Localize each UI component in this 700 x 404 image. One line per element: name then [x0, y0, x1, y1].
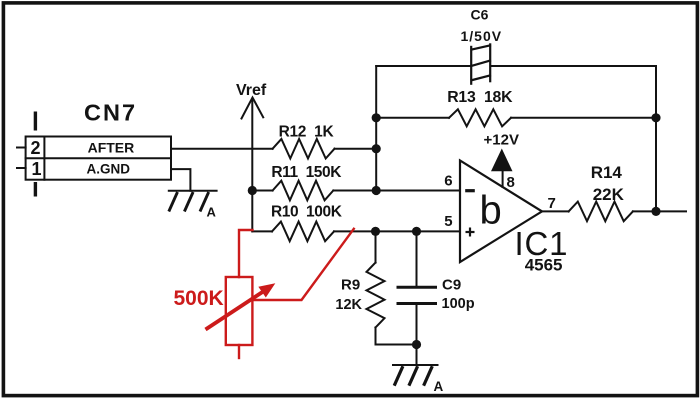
svg-text:Vref: Vref	[236, 82, 267, 99]
svg-text:A.GND: A.GND	[87, 162, 131, 177]
svg-text:A: A	[434, 379, 444, 394]
svg-text:5: 5	[444, 213, 452, 230]
svg-text:22K: 22K	[593, 185, 625, 204]
svg-text:1/50V: 1/50V	[461, 28, 503, 44]
svg-text:R11 150K: R11 150K	[271, 164, 342, 181]
svg-text:500K: 500K	[174, 287, 224, 310]
svg-text:A: A	[207, 205, 217, 220]
svg-text:+12V: +12V	[484, 132, 519, 149]
svg-text:12K: 12K	[335, 297, 362, 313]
svg-text:R13 18K: R13 18K	[447, 89, 513, 106]
svg-text:2: 2	[31, 138, 41, 158]
svg-text:C9: C9	[442, 276, 461, 293]
svg-text:1: 1	[32, 159, 42, 179]
svg-text:AFTER: AFTER	[88, 140, 135, 156]
svg-text:R12 1K: R12 1K	[279, 123, 335, 140]
svg-text:R9: R9	[341, 276, 360, 293]
svg-text:CN7: CN7	[84, 100, 137, 126]
svg-text:100p: 100p	[442, 296, 475, 312]
svg-text:R10 100K: R10 100K	[271, 203, 343, 220]
svg-text:C6: C6	[471, 6, 489, 22]
svg-text:R14: R14	[591, 163, 623, 182]
svg-text:8: 8	[507, 174, 515, 191]
svg-text:4565: 4565	[525, 256, 563, 275]
svg-text:7: 7	[548, 195, 556, 212]
svg-text:6: 6	[444, 173, 452, 190]
svg-text:b: b	[480, 189, 502, 233]
